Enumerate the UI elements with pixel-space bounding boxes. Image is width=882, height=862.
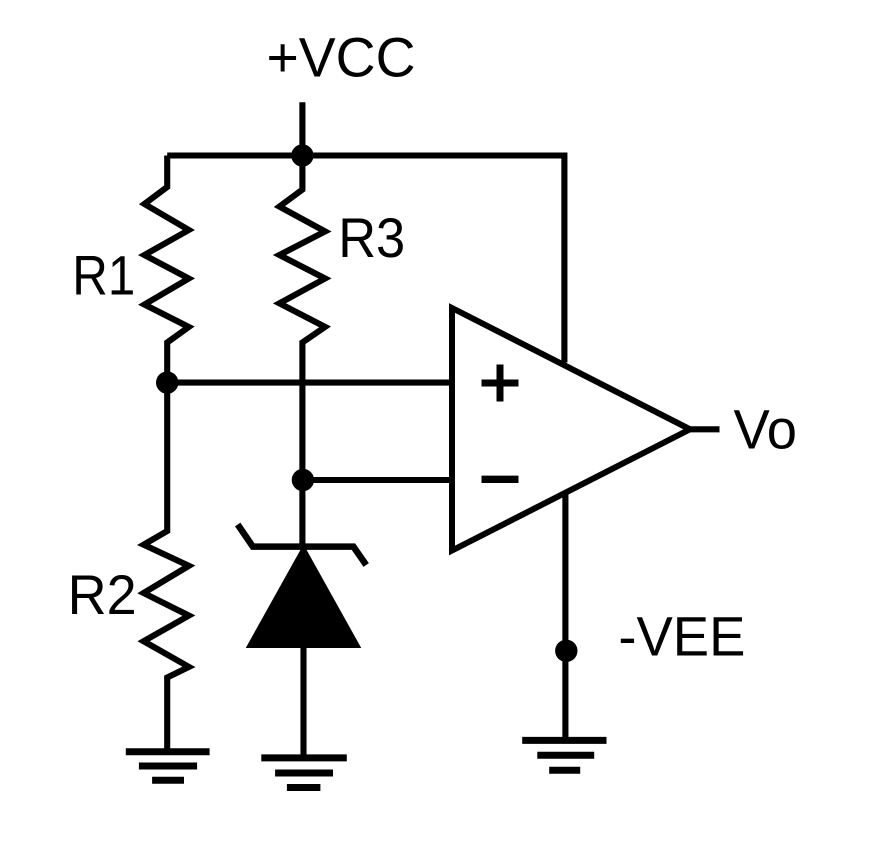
svg-text:+VCC: +VCC [267, 25, 416, 88]
svg-text:-VEE: -VEE [618, 604, 745, 667]
svg-text:R1: R1 [72, 243, 135, 306]
svg-text:R2: R2 [68, 563, 137, 626]
svg-text:R3: R3 [338, 206, 405, 269]
svg-text:Vo: Vo [734, 398, 798, 461]
